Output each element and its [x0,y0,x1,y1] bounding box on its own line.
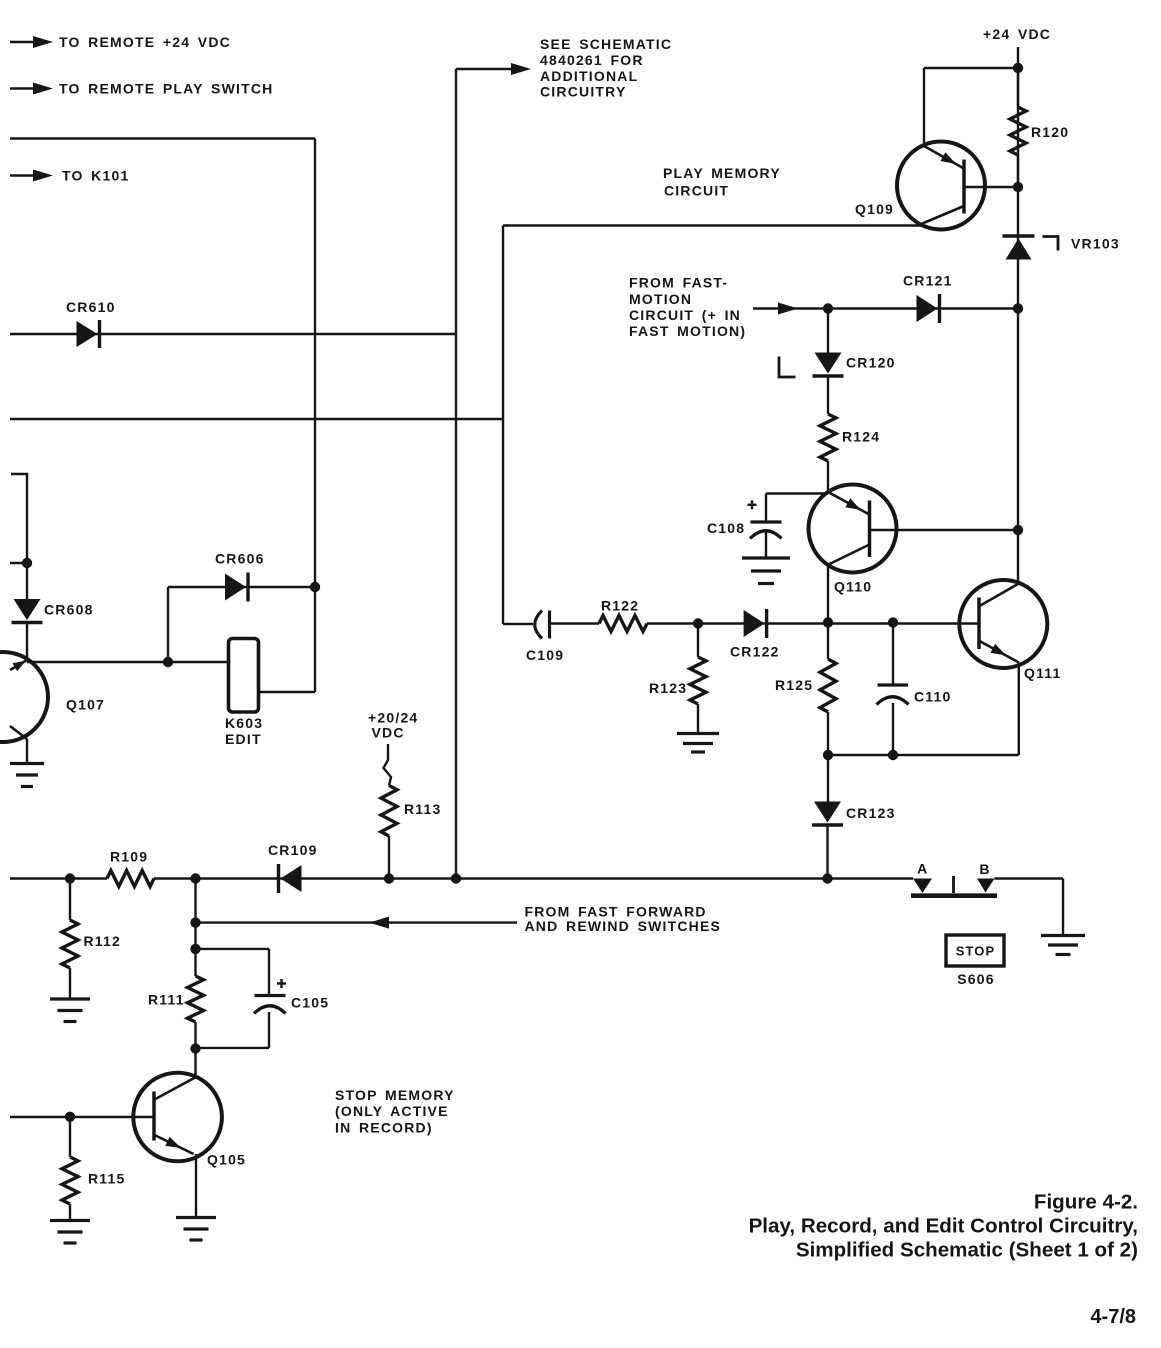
diode CR122 [744,609,767,638]
pushbutton STOP S606 [946,935,1004,966]
svg-text:4-7/8: 4-7/8 [1090,1306,1136,1328]
svg-text:CIRCUIT: CIRCUIT [664,183,729,199]
svg-text:R120: R120 [1031,124,1069,140]
label PLAY MEMORY CIRCUIT [663,165,781,199]
wire Q107 base line y=662 [27,661,229,663]
transistor Q105 [133,1073,222,1162]
polarity + C108 [748,500,757,509]
svg-text:CR610: CR610 [66,299,116,315]
label A [917,860,928,876]
label S606 [957,971,995,987]
wire Q105 base line [10,1116,154,1118]
svg-text:AND REWIND SWITCHES: AND REWIND SWITCHES [525,918,722,934]
resistor R124 [820,414,836,461]
wire Q109 emitter branch [924,68,1018,146]
wire vertical x=503 play memory net [502,226,504,625]
node dot R111 column top [190,873,200,883]
node dot stub y=563 [22,558,32,568]
svg-text:CR121: CR121 [903,273,953,289]
svg-text:CR109: CR109 [268,842,318,858]
svg-text:R115: R115 [88,1171,126,1187]
note FROM FAST-MOTION CIRCUIT [629,274,746,339]
node dot R122/R123 [693,618,703,628]
node dot CR606/bus [310,582,320,592]
svg-text:CR122: CR122 [730,644,780,660]
capacitor C109 [535,611,550,639]
node dot R111/C105 bottom [190,1043,200,1053]
edit-pulse mark near CR120 [779,357,796,378]
wire y=419 line [10,418,503,420]
svg-text:Q110: Q110 [834,579,872,595]
svg-text:TO K101: TO K101 [62,168,129,184]
transistor Q111 [959,580,1047,668]
wire CR610 line y=334 [10,333,456,335]
svg-text:SEE SCHEMATIC: SEE SCHEMATIC [540,36,672,52]
wire R112 to ground [69,968,71,999]
wire R113 to stop line [388,836,390,879]
wire stub y=563 [10,562,27,564]
label R115 [88,1171,126,1187]
node dot R125/CR123 [823,750,833,760]
wire R115 to ground [69,1204,71,1221]
node dot C110 top [888,617,898,627]
svg-text:B: B [979,861,990,877]
wire C109 to R122 [550,622,600,624]
label R125 [775,677,813,693]
svg-text:S606: S606 [957,971,995,987]
svg-text:C109: C109 [526,647,564,663]
label CR123 [846,805,896,821]
svg-text:C105: C105 [291,995,329,1011]
svg-text:(ONLY ACTIVE: (ONLY ACTIVE [335,1103,449,1119]
svg-text:+20/24: +20/24 [368,709,418,725]
resistor R109 [107,871,154,887]
wire Q111 emitter down [1018,663,1020,756]
wire arrow to see-schematic note [456,63,531,75]
resistor R125 [820,659,836,712]
label CR120 [846,354,896,370]
wire Q110 collector down [827,565,829,623]
wire to C109 [503,623,533,625]
wire CR120 to R124 [827,376,829,414]
label CR109 [268,842,318,858]
svg-text:STOP MEMORY: STOP MEMORY [335,1087,455,1103]
wire CR120 anode [827,309,829,353]
wire R123 to ground [697,704,699,734]
note SEE SCHEMATIC 4840261 [540,36,672,100]
wire CR123 to stop line [826,825,828,879]
svg-text:PLAY MEMORY: PLAY MEMORY [663,165,781,181]
svg-text:R111: R111 [148,992,185,1008]
svg-text:R122: R122 [601,597,639,613]
svg-text:Q105: Q105 [207,1152,246,1168]
wire fast forward line y=922.6 [196,917,518,929]
svg-text:R123: R123 [649,680,687,696]
note STOP MEMORY [335,1087,455,1136]
svg-text:+24 VDC: +24 VDC [983,26,1051,42]
label Q109 [855,201,894,217]
wire C110 top [892,623,894,686]
page number 4-7/8 [1090,1306,1136,1328]
wire +24 VDC vertical x=1018 [1017,47,1019,583]
resistor R112 [62,920,78,968]
wire Q107 emitter [26,739,28,764]
wire corner top of CR608 string [11,474,27,599]
transistor Q109 [897,142,1018,230]
svg-text:TO REMOTE PLAY SWITCH: TO REMOTE PLAY SWITCH [59,81,273,97]
resistor R113 [381,786,397,837]
label C110 [914,689,952,705]
capacitor C108 [750,522,782,558]
wire Q105 emitter [195,1154,197,1218]
wire R111 column [194,879,196,977]
svg-text:R113: R113 [404,801,442,817]
svg-text:IN RECORD): IN RECORD) [335,1120,433,1136]
svg-text:K603: K603 [225,715,263,731]
label C105 [291,995,329,1011]
node dot R113 bottom [384,873,394,883]
wire VDC to R113 [384,744,392,786]
svg-text:C110: C110 [914,689,952,705]
capacitor C110 [877,685,909,705]
relay K603 EDIT [229,639,259,713]
capacitor C105 [254,996,286,1014]
svg-text:TO REMOTE +24 VDC: TO REMOTE +24 VDC [59,34,231,50]
wire Q110 base to bus [870,529,1019,531]
input arrow TO K101 [10,168,129,184]
svg-text:VDC: VDC [372,724,405,740]
diode CR109 [279,864,302,893]
wire C105 top branch [196,949,270,996]
svg-text:CR608: CR608 [44,602,94,618]
label Q105 [207,1152,246,1168]
ground switch [1041,936,1085,955]
ground R123 [677,734,719,753]
label K603 EDIT [225,715,263,747]
svg-text:CIRCUITRY: CIRCUITRY [540,84,627,100]
wire R124 to Q110 emitter [827,461,829,492]
diode CR606 [225,573,248,602]
transistor Q110 [809,485,897,573]
svg-text:R109: R109 [110,849,148,865]
label R109 [110,849,148,865]
wire Q110 collector to R125 [827,623,829,660]
svg-text:R112: R112 [84,933,122,949]
wire emitter bottom line y=755 [828,754,1019,756]
ground R115 [50,1221,90,1244]
note FROM FAST FORWARD AND REWIND SWITCHES [525,904,722,935]
switch contact B [977,879,995,893]
node dot fast-motion/CR120 [823,303,833,313]
label R113 [404,801,442,817]
diode CR608 [12,599,43,623]
wire CR608 to Q107 [26,623,28,660]
svg-text:Q107: Q107 [66,697,105,713]
label CR606 [215,551,265,567]
resistor R123 [690,657,706,704]
switch pole post [952,876,955,893]
wire CR606 branch up [167,587,169,662]
node dot C110 bottom [888,750,898,760]
wire top horizontal to K101 net [10,137,315,139]
svg-text:STOP: STOP [956,944,996,959]
svg-text:Figure 4-2.: Figure 4-2. [1034,1191,1138,1214]
label Q107 [66,697,105,713]
wire R111 bottom [194,1022,196,1077]
svg-text:4840261 FOR: 4840261 FOR [540,52,644,68]
ground C108 [742,558,790,584]
node dot R120/Q109 base [1013,182,1023,192]
label C108 [707,520,745,536]
svg-text:ADDITIONAL: ADDITIONAL [540,68,638,84]
label Q111 [1024,665,1062,681]
node dot CR123 bottom [822,873,832,883]
node dot base/CR606 branch [163,657,173,667]
zener diode VR103 [1003,236,1035,260]
wire R112 top [69,879,71,921]
wire C105 bottom branch [196,1012,270,1048]
node dot Q110 collector junction [823,617,833,627]
label R122 [601,597,639,613]
diode CR121 [917,294,940,323]
svg-text:C108: C108 [707,520,745,536]
svg-text:R124: R124 [842,429,880,445]
svg-text:CR606: CR606 [215,551,265,567]
label R120 [1031,124,1069,140]
label Q110 [834,579,872,595]
wire C110 bottom [892,703,894,755]
wire R125 to CR123 [827,755,829,802]
svg-text:FROM FAST-: FROM FAST- [629,274,728,290]
zener mark VR103 [1043,237,1059,251]
label R123 [649,680,687,696]
node dot CR121 cathode [1013,303,1023,313]
svg-text:CR123: CR123 [846,805,896,821]
svg-text:MOTION: MOTION [629,291,692,307]
wire B to ground [995,879,1064,936]
label R112 [84,933,122,949]
caption Figure 4-2. [749,1191,1138,1262]
wire stop memory line y=878.5 [10,877,913,879]
wire R122 to Q111 base [647,622,979,624]
label R111 [148,992,185,1008]
ground R112 [50,999,90,1022]
switch bar [911,893,997,898]
svg-text:EDIT: EDIT [225,731,262,747]
svg-text:A: A [917,860,928,876]
wire C108 branch [766,494,828,523]
svg-text:VR103: VR103 [1071,236,1120,252]
svg-text:Q109: Q109 [855,201,894,217]
svg-text:FAST MOTION): FAST MOTION) [629,323,746,339]
node dot R112 top [65,873,75,883]
transistor Q107 [0,652,48,742]
diode CR123 [812,802,843,826]
svg-text:CR120: CR120 [846,354,896,370]
svg-text:CIRCUIT (+ IN: CIRCUIT (+ IN [629,307,741,323]
polarity + C105 [277,979,286,988]
node dot bus x=456 bottom [451,873,461,883]
wire vertical bus x=456 [455,69,457,879]
wire vertical bus x=315 [314,139,316,693]
label VR103 [1071,236,1120,252]
wire R123 top [697,624,699,658]
node dot R115 top [65,1112,75,1122]
label R124 [842,429,880,445]
node dot Q110 base/Q111 collector [1013,525,1023,535]
wire Q109 collector line y=225.5 [503,224,921,226]
svg-text:Play, Record, and Edit Control: Play, Record, and Edit Control Circuitry… [749,1215,1138,1238]
svg-text:R125: R125 [775,677,813,693]
node dot C105 branch top [190,944,200,954]
power +24 VDC [983,26,1051,42]
resistor R122 [599,616,647,632]
resistor R111 [188,976,204,1022]
wire R115 top [69,1117,71,1157]
wire R125 bottom [827,712,829,755]
wire K603 right pin to bus [258,691,315,693]
label CR608 [44,602,94,618]
svg-text:Q111: Q111 [1024,665,1062,681]
switch contact A [913,879,932,894]
resistor R120 [1010,68,1026,187]
ground Q107 [10,764,44,787]
diode CR610 [77,320,100,348]
node dot fast forward junction [190,917,200,927]
wire CR606 line y=587 [168,586,315,588]
label CR610 [66,299,116,315]
wire fast-motion line y=308.5 [753,303,1018,315]
resistor R115 [62,1157,78,1204]
input arrow TO REMOTE +24 VDC [10,34,231,50]
label CR121 [903,273,953,289]
svg-text:Simplified Schematic (Sheet 1: Simplified Schematic (Sheet 1 of 2) [796,1239,1138,1262]
diode CR120 [813,353,844,377]
input arrow TO REMOTE PLAY SWITCH [10,81,273,97]
power +20/24 VDC [368,709,418,740]
label C109 [526,647,564,663]
label B [979,861,990,877]
node dot +24/Q109 emitter [1013,63,1023,73]
label CR122 [730,644,780,660]
ground Q105 emitter [176,1218,216,1241]
